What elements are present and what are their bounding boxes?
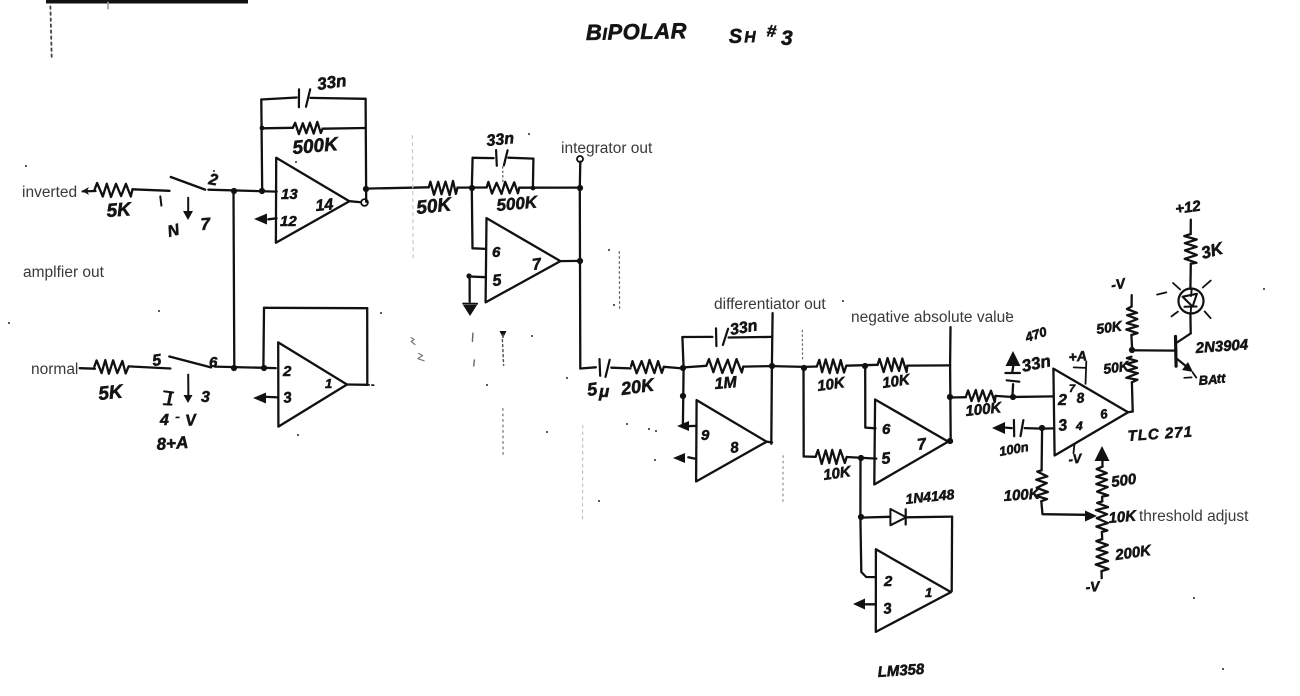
svg-text:9: 9 (701, 427, 710, 444)
svg-text:10K: 10K (1108, 508, 1138, 527)
svg-text:SH: SH (728, 25, 758, 48)
svg-text:50K: 50K (415, 194, 453, 219)
svg-text:5K: 5K (106, 199, 133, 222)
svg-text:normal: normal (31, 361, 78, 378)
svg-text:500K: 500K (292, 134, 340, 159)
svg-text:2: 2 (883, 573, 893, 590)
svg-text:12: 12 (280, 213, 297, 230)
svg-text:negative absolute value: negative absolute value (851, 309, 1014, 326)
svg-text:threshold adjust: threshold adjust (1139, 508, 1249, 525)
svg-text:integrator out: integrator out (561, 140, 653, 157)
svg-text:2: 2 (1057, 392, 1067, 409)
svg-text:13: 13 (281, 186, 298, 203)
svg-text:+12: +12 (1174, 197, 1202, 217)
svg-text:2: 2 (282, 363, 292, 380)
svg-text:500K: 500K (496, 192, 540, 215)
svg-text:6: 6 (882, 421, 891, 438)
svg-text:differentiator out: differentiator out (714, 296, 826, 313)
svg-text:tt: tt (1216, 370, 1226, 386)
svg-text:inverted: inverted (22, 184, 77, 201)
svg-text:14: 14 (315, 196, 335, 215)
svg-text:μ: μ (598, 382, 610, 401)
svg-text:8+A: 8+A (156, 433, 189, 454)
svg-text:500: 500 (1110, 471, 1138, 491)
svg-text:4: 4 (1075, 419, 1083, 433)
svg-text:+A: +A (1068, 347, 1088, 365)
svg-text:3: 3 (201, 389, 210, 406)
svg-text:100K: 100K (1003, 485, 1041, 505)
svg-text:1: 1 (925, 585, 932, 600)
svg-text:7: 7 (1069, 383, 1076, 395)
svg-text:1M: 1M (714, 374, 738, 393)
svg-text:33n: 33n (486, 130, 515, 150)
svg-text:6: 6 (492, 244, 501, 261)
svg-text:33n: 33n (316, 71, 348, 94)
svg-text:BIPOLAR: BIPOLAR (586, 18, 688, 45)
svg-text:amplfier out: amplfier out (23, 264, 105, 281)
svg-text:1: 1 (325, 376, 332, 391)
svg-text:6: 6 (209, 354, 218, 371)
svg-text:5K: 5K (97, 381, 125, 405)
svg-text:-: - (175, 408, 180, 424)
svg-text:3: 3 (781, 27, 793, 50)
svg-text:LM358: LM358 (877, 661, 925, 681)
svg-text:BA: BA (1198, 372, 1218, 388)
svg-text:4: 4 (159, 412, 169, 429)
